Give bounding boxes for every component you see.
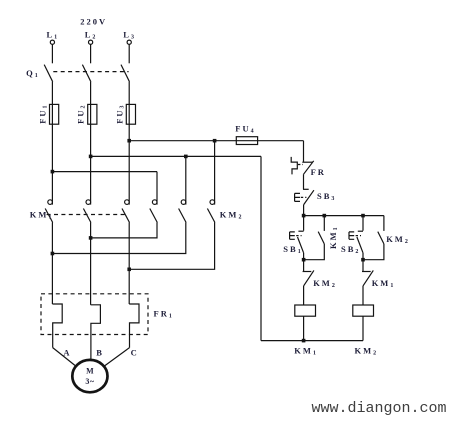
FR contact fixed bar: [302, 161, 312, 163]
junction SB2 bottom node: [361, 258, 365, 262]
svg-text:SB3: SB3: [317, 191, 334, 202]
svg-text:www.diangon.com: www.diangon.com: [312, 400, 447, 417]
wire interlock to KM2 coil: [362, 286, 364, 305]
SB2 fixed tick: [358, 230, 363, 232]
svg-text:B: B: [96, 347, 104, 357]
wire motor lead A slant: [53, 348, 76, 366]
switch Q1 linkage dashed line: [53, 71, 128, 73]
SB1 blade: [298, 237, 304, 253]
junction SB2 top: [361, 214, 365, 218]
wire motor lead C slant: [104, 348, 129, 366]
contact KM2-c blade: [207, 209, 215, 223]
svg-text:M: M: [86, 367, 94, 376]
svg-text:FR1: FR1: [154, 308, 172, 319]
SB1 fixed tick: [298, 230, 303, 232]
wire L2 drop to switch: [90, 44, 92, 63]
terminal L1 circle: [50, 40, 54, 44]
SB2 blade: [357, 237, 363, 253]
tap wire L3 to FU4 and KM2 phase C feed: [129, 140, 303, 142]
control bottom rail: [261, 340, 363, 342]
svg-text:KM2: KM2: [386, 234, 408, 245]
contact KM1-c hook: [125, 200, 130, 205]
SB1 button actuator E: [290, 232, 295, 239]
wire SB1 bottom: [303, 253, 305, 260]
svg-text:FU2: FU2: [76, 105, 87, 123]
svg-text:KM1: KM1: [294, 346, 316, 357]
wire node to KM2 interlock: [303, 260, 305, 272]
junction L2 tap: [89, 155, 93, 159]
SB3 fixed bar: [303, 188, 309, 190]
wire phase B output of KM1-b down to heater: [90, 223, 92, 305]
contact KM1-c blade: [122, 209, 130, 223]
wire KM2 coil to rail: [362, 316, 364, 340]
svg-text:FU3: FU3: [114, 105, 125, 123]
contact KM1-a blade: [45, 209, 53, 223]
junction L1 tap: [51, 170, 55, 174]
fuse FU1 through wire: [51, 104, 53, 124]
fuse FU4 body: [236, 137, 257, 145]
svg-text:L2: L2: [85, 29, 96, 40]
wire L3 drop to switch: [128, 44, 130, 63]
KM2 aux bottom wire: [363, 244, 384, 260]
wire SB2 bottom: [362, 253, 364, 260]
coil KM2 body: [353, 305, 374, 316]
SB1 feed wire: [303, 216, 305, 231]
contact KM2-b blade: [179, 209, 187, 223]
KM2 feed drop c6: [214, 141, 216, 205]
control left return wire: [260, 156, 262, 340]
FR actuator dashed link: [298, 164, 303, 166]
SB1 actuator dashed link: [296, 235, 301, 237]
contact KM2-a hook: [152, 200, 157, 205]
junction c6 feed: [213, 139, 217, 143]
SB2 actuator dashed link: [356, 235, 361, 237]
control top wire: [304, 215, 384, 217]
wire phase C output of KM1-c down to heater: [128, 223, 130, 305]
svg-text:3~: 3~: [85, 377, 95, 386]
contact KM2-c hook: [210, 200, 215, 205]
junction KM1 aux top: [323, 214, 327, 218]
svg-text:Q1: Q1: [26, 68, 38, 79]
wire node to KM1 interlock: [362, 260, 364, 272]
svg-text:SB2: SB2: [341, 244, 358, 255]
svg-text:SB1: SB1: [283, 244, 300, 255]
svg-text:A: A: [63, 347, 71, 357]
wire phase A output of KM1-a down to heater: [51, 223, 53, 305]
fuse FU2 through wire: [90, 104, 92, 124]
terminal L3 circle: [127, 40, 131, 44]
KM2 interlock fixed bar: [303, 271, 312, 273]
svg-text:KM2: KM2: [313, 278, 335, 289]
KM1 linkage dashed line: [47, 214, 126, 216]
fuse FU2 body: [88, 104, 97, 124]
FR thermal actuator zigzag: [291, 157, 297, 175]
junction SB1 bottom node: [302, 258, 306, 262]
junction KM1 coil on rail: [302, 339, 306, 343]
tap wire L1 to KM2 phase feed: [52, 171, 157, 173]
contact KM2-a blade: [150, 209, 158, 223]
svg-text:FU4: FU4: [235, 124, 253, 135]
KM2 interlock blade: [304, 270, 314, 286]
junction c5 feed: [184, 155, 188, 159]
terminal L2 circle: [89, 40, 93, 44]
wire L2 switch to fuse: [90, 82, 92, 105]
KM1 aux bottom wire: [304, 244, 325, 260]
wire FU4 output corner down to FR contact: [303, 141, 305, 162]
switch Q1 pole 2 blade: [82, 65, 91, 82]
tap wire L2 to KM2 phase feed and control return: [91, 155, 261, 157]
junction KM2-a output on phase B: [89, 236, 93, 240]
contact KM1-b blade: [83, 209, 91, 223]
junction SB3 node: [302, 214, 306, 218]
svg-text:FU1: FU1: [38, 105, 49, 123]
SB3 actuator dashed link: [301, 196, 307, 198]
fuse FU3 through wire: [128, 104, 130, 124]
svg-text:KM1: KM1: [328, 227, 339, 249]
wire SB3 to parallel node: [303, 205, 305, 216]
KM1 interlock blade: [363, 270, 373, 286]
FR1 heater element phase B: [91, 305, 101, 360]
wire L2 fuse to KM1 contact: [90, 124, 92, 204]
thermal relay FR1 dashed box: [41, 294, 148, 335]
wire KM2-a output to phase B: [91, 223, 157, 238]
junction KM2-b output on phase A: [51, 252, 55, 256]
SB3 blade: [304, 190, 314, 204]
wire KM2-b output to phase A: [52, 223, 185, 254]
SB2 feed wire: [362, 216, 364, 231]
svg-text:L1: L1: [47, 29, 58, 40]
contact KM1-b hook: [86, 200, 91, 205]
svg-text:220V: 220V: [80, 17, 107, 27]
wire L1 drop to switch: [51, 44, 53, 63]
KM1 aux contact feed: [323, 216, 325, 231]
svg-text:KM1: KM1: [372, 278, 394, 289]
wire L3 switch to fuse: [128, 82, 130, 105]
KM2 aux contact blade: [378, 232, 384, 244]
wire KM2-c output to phase C: [129, 223, 214, 270]
svg-text:L3: L3: [123, 29, 134, 40]
svg-text:KM2: KM2: [355, 346, 377, 357]
fuse FU1 body: [50, 104, 59, 124]
KM1 interlock fixed bar: [362, 271, 371, 273]
switch Q1 pole 1 blade: [44, 65, 53, 82]
FR contact blade: [304, 161, 314, 175]
svg-text:FR: FR: [311, 167, 326, 177]
FR1 heater element phase A: [52, 304, 62, 348]
junction L3 tap: [127, 139, 131, 143]
wire L3 fuse to KM1 contact: [128, 124, 130, 204]
contact KM1-a hook: [48, 200, 53, 205]
svg-text:KM2: KM2: [220, 210, 242, 221]
wire L1 fuse to KM1 contact: [51, 124, 53, 204]
SB3 button actuator E: [295, 193, 300, 201]
KM2 aux contact feed: [383, 216, 385, 231]
switch Q1 pole 3 blade: [121, 65, 130, 82]
coil KM1 body: [295, 305, 316, 316]
wire FR to SB3: [303, 174, 305, 189]
contact KM2-b hook: [181, 200, 186, 205]
svg-text:C: C: [131, 347, 139, 357]
SB2 button actuator E: [349, 232, 354, 239]
FR1 heater element phase C: [129, 304, 139, 348]
wire L1 switch to fuse: [51, 82, 53, 105]
fuse FU3 body: [126, 104, 135, 124]
motor M circle: [72, 360, 107, 392]
KM2 feed drop c4: [156, 172, 158, 205]
KM2 feed drop c5: [185, 156, 187, 204]
wire interlock to KM1 coil: [303, 286, 305, 305]
junction KM2-c output on phase C: [127, 268, 131, 272]
wire KM1 coil to rail: [303, 316, 305, 340]
svg-text:KM1: KM1: [30, 210, 52, 221]
KM1 aux contact blade: [318, 232, 324, 244]
